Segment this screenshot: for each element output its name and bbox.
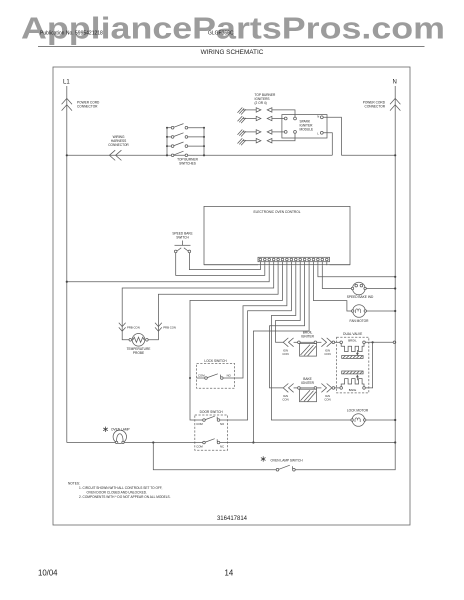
wire spark module N to neutral [323, 117, 341, 155]
wire speed bake switch left pole to pin 2 [176, 253, 265, 276]
igniter row 1 [238, 108, 296, 118]
bake igniter connector IGN CON (left) [283, 384, 297, 393]
wire pin 12 to lamp line [253, 265, 309, 442]
junction L1 feed [66, 281, 68, 283]
svg-text:CON: CON [282, 352, 288, 356]
broil igniter connector IGN CON (left) [283, 338, 297, 347]
svg-text:14: 14 [225, 569, 234, 578]
power cord connector (right) [390, 98, 400, 110]
igniter row 3 [238, 130, 285, 137]
dual valve broil coil [340, 341, 365, 352]
wire speed bake switch right pole to pin 1 [189, 253, 260, 270]
wiring harness connector [109, 150, 121, 160]
wire fan motor to neutral [367, 310, 396, 312]
svg-text:LOCK MOTOR: LOCK MOTOR [347, 408, 369, 412]
dual valve bake coil [340, 379, 365, 390]
svg-text:SPEED BAKE IND: SPEED BAKE IND [347, 295, 374, 299]
svg-text:PRB CON: PRB CON [163, 326, 176, 330]
door switch S3 [195, 415, 228, 450]
junction L1/bus [66, 154, 68, 156]
junction lamp switch branch [152, 441, 154, 443]
node broil valve input [332, 341, 340, 344]
svg-text:1. CIRCUIT SHOWN WITH ALL CON: 1. CIRCUIT SHOWN WITH ALL CONTROLS SET T… [79, 486, 163, 490]
svg-text:L1: L1 [63, 80, 70, 86]
header rule [38, 46, 425, 48]
spark igniter module U1 [282, 115, 327, 138]
wire oven lamp line y=442.5 [67, 442, 395, 444]
svg-text:316417814: 316417814 [217, 516, 248, 522]
asterisk oven lamp switch [261, 456, 266, 461]
svg-text:NO: NO [227, 373, 232, 377]
svg-text:NOTES:: NOTES: [68, 481, 80, 485]
temperature probe RT1 [129, 334, 148, 347]
wire pin 10 to broil igniter [276, 265, 301, 342]
svg-text:OVEN LAMP SWITCH: OVEN LAMP SWITCH [271, 458, 304, 462]
EOC bottom edge segments [204, 264, 258, 266]
dual valve V1 [337, 337, 369, 393]
svg-text:N: N [317, 115, 319, 119]
svg-text:COM: COM [198, 373, 205, 377]
wire oven lamp switch branch [153, 443, 395, 470]
igniter row 4 [238, 133, 296, 145]
svg-text:OVEN LAMP: OVEN LAMP [111, 427, 130, 431]
bake igniter HTR2 [298, 387, 317, 402]
wire pin 14 to neutral [318, 265, 395, 277]
top burner switch rung 3 [167, 142, 204, 147]
door switch lower pole (on lamp line) [203, 439, 220, 444]
svg-text:WIRING SCHEMATIC: WIRING SCHEMATIC [201, 49, 264, 56]
svg-text:SWITCHES: SWITCHES [179, 161, 196, 165]
svg-text:10/04: 10/04 [38, 569, 58, 578]
oven lamp DS2 [113, 430, 126, 444]
svg-text:IGNITER: IGNITER [301, 334, 315, 338]
junction lock switch COM tap [189, 377, 191, 379]
wire bake coil riser [365, 342, 372, 388]
bake igniter connector IGN CON (right) [317, 384, 332, 393]
schematic border frame [53, 67, 410, 525]
wire pin 9 to lock motor [271, 265, 352, 420]
svg-text:Publication No. 5995421218: Publication No. 5995421218 [40, 31, 103, 37]
fan motor M1 [352, 305, 367, 318]
EOC pin legs [260, 262, 326, 266]
svg-text:CON: CON [282, 398, 288, 402]
power cord connector (left) [62, 98, 72, 110]
broil igniter connector IGN CON (right) [317, 338, 332, 347]
svg-text:GLGF366C: GLGF366C [208, 31, 234, 37]
svg-text:COM: COM [196, 422, 203, 426]
svg-text:CONNECTOR: CONNECTOR [108, 143, 129, 147]
node bake valve input [332, 387, 340, 390]
svg-text:L: L [317, 132, 319, 136]
electronic oven control U2 [204, 206, 350, 264]
svg-text:PRB CON: PRB CON [127, 326, 140, 330]
wire pin 8 to door switch NO [228, 265, 292, 420]
wire N vertical [394, 86, 396, 443]
svg-text:IGNITER: IGNITER [301, 381, 315, 385]
svg-text:MODULE: MODULE [300, 128, 314, 132]
wire L1 bus y=155.3 [67, 154, 333, 156]
svg-text:(2 OR 4): (2 OR 4) [255, 101, 267, 105]
svg-text:CONNECTOR: CONNECTOR [77, 105, 98, 109]
svg-text:OVEN DOOR CLOSED AND UNLOCKED.: OVEN DOOR CLOSED AND UNLOCKED. [87, 491, 148, 495]
wire pin 5 to probe right connector [148, 265, 278, 340]
broil valve armature [342, 350, 363, 358]
top burner switch rung 2 [167, 133, 204, 138]
svg-text:BAKE: BAKE [349, 388, 357, 392]
svg-text:ELECTRONIC OVEN CONTROL: ELECTRONIC OVEN CONTROL [254, 210, 301, 214]
svg-text:NC: NC [220, 445, 224, 449]
spark module terminal L [320, 131, 323, 134]
svg-text:CON: CON [324, 352, 330, 356]
svg-text:CONNECTOR: CONNECTOR [365, 105, 386, 109]
top burner switch rung 4 (on bus) [171, 151, 187, 156]
bake valve armature [342, 371, 363, 380]
igniter row 2 [238, 116, 285, 123]
svg-text:DUAL VALVE: DUAL VALVE [343, 332, 362, 336]
wire spark module L to bus [323, 133, 332, 156]
lock switch S2 [197, 363, 235, 388]
door switch upper pole [195, 416, 228, 421]
probe connector PRB CON (right) [155, 323, 162, 331]
svg-text:DOOR SWITCH: DOOR SWITCH [200, 410, 224, 414]
svg-text:NO: NO [220, 422, 225, 426]
junctions on switch ladder [166, 127, 205, 157]
wire lock motor to neutral [366, 419, 395, 421]
node valve return at neutral [393, 341, 396, 344]
wire pin 11 to bake igniter [270, 265, 305, 388]
svg-text:COM: COM [196, 445, 203, 449]
svg-text:FAN MOTOR: FAN MOTOR [350, 319, 370, 323]
broil igniter HTR1 [298, 341, 317, 356]
wire pin 7 to lock switch NO [236, 265, 287, 378]
top burner switch rung 1 [167, 124, 204, 129]
svg-text:CON: CON [324, 398, 330, 402]
svg-text:SWITCH: SWITCH [176, 236, 189, 240]
svg-text:BROIL: BROIL [348, 339, 357, 343]
wire pin 6 to lock/door switch common [190, 265, 283, 420]
svg-text:2. COMPONENTS WITH * DO NOT: 2. COMPONENTS WITH * DO NOT APPEAR ON AL… [79, 495, 171, 499]
asterisk oven lamp [103, 427, 108, 432]
wire broil coil to neutral [365, 341, 393, 343]
EOC connector strip P1 [258, 257, 330, 261]
wire L1 feed to pin 3 [67, 265, 269, 282]
probe connector PRB CON (left) [119, 323, 126, 331]
svg-text:PROBE: PROBE [133, 351, 144, 355]
wire pin 15 to speed bake indicator [322, 265, 352, 288]
speed bake indicator DS1 [351, 282, 366, 295]
top burner switches SW1-SW4 ladder [167, 128, 204, 156]
wire L1 vertical [66, 86, 68, 443]
wire pin 4 to probe left connector [122, 265, 274, 340]
wire speed bake indicator to neutral [366, 288, 395, 290]
oven lamp switch S4 [276, 465, 295, 471]
wire pin 13 to fan motor [314, 265, 353, 311]
junction bake/broil return [372, 341, 374, 343]
svg-text:N: N [393, 80, 397, 86]
svg-text:AppliancePartsPros.com: AppliancePartsPros.com [21, 12, 445, 46]
svg-text:LOCK SWITCH: LOCK SWITCH [204, 359, 227, 363]
spark module terminal N [320, 116, 323, 119]
